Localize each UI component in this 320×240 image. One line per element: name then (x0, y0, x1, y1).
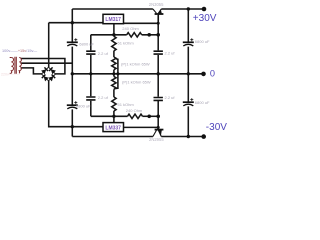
core (15, 57, 16, 74)
svg-text:6800 uF: 6800 uF (195, 39, 210, 44)
svg-text:2.2 uf: 2.2 uf (98, 95, 109, 100)
wire LM337 ADJ stub (113, 116, 115, 123)
terminal 0 (201, 72, 206, 77)
svg-text:+30V: +30V (193, 13, 217, 24)
wire transformer secondary center tap (21, 62, 73, 64)
junction 0V / wiper top (116, 72, 119, 75)
terminal +30V (202, 7, 207, 12)
junction ADJ pin / 51k top (112, 33, 115, 36)
wire bridge minus vertical (49, 81, 103, 127)
svg-text:2.2 uf: 2.2 uf (165, 51, 176, 56)
wire transformer secondary lead1 (21, 59, 65, 74)
wire 51k-pot column connectors bottom (113, 74, 115, 117)
svg-text:2N3055: 2N3055 (149, 2, 164, 7)
svg-text:2.2 uf: 2.2 uf (165, 95, 176, 100)
wire unregulated + input to LM317 (49, 22, 103, 24)
svg-text:240 Ohm: 240 Ohm (122, 26, 139, 31)
svg-text:100v——+15v/15v—: 100v——+15v/15v— (2, 49, 37, 53)
junction 0V / pot top (112, 72, 115, 75)
svg-text:(P)1 kOhm 65W: (P)1 kOhm 65W (122, 80, 151, 85)
svg-text:LM317: LM317 (105, 17, 121, 23)
diode D3 SW (44, 76, 49, 81)
wire ADJ line bottom + cap branch (91, 74, 128, 117)
junction -30V rail / C8 (187, 135, 190, 138)
bridge rectifier diamond (42, 67, 56, 81)
wire top rail left segment (72, 8, 153, 10)
svg-text:6800 uF: 6800 uF (195, 100, 210, 105)
junction 0V / output caps (157, 72, 160, 75)
primary winding (11, 58, 13, 74)
junction OUT line / base column top (156, 33, 160, 37)
svg-text:51 kOhm: 51 kOhm (118, 41, 135, 46)
svg-text:(P)1 kOhm 65W: (P)1 kOhm 65W (121, 61, 150, 66)
wire bridge plus vertical (48, 23, 50, 68)
resistor 51 kOhm bottom (112, 97, 116, 111)
capacitor C4 6800uF top right (183, 38, 194, 46)
junction +30V rail / C4 (187, 7, 190, 10)
junction unreg+ / top rail feed (71, 21, 74, 24)
junction LM317 OUT / base (157, 22, 160, 25)
wire ADJ line bottom right part (143, 115, 159, 117)
wire 51k-pot column connectors top (113, 51, 115, 74)
primary lead stubs (10, 58, 12, 74)
wire pot wiper top (117, 59, 119, 74)
wire pot wiper bottom (117, 74, 119, 89)
capacitor C1 6800uF top left (67, 38, 78, 46)
wire output cap column top (157, 15, 159, 74)
svg-text:6800 uF: 6800 uF (76, 104, 91, 109)
regulator U2 LM337 (103, 123, 124, 132)
wire right column vertical (187, 9, 189, 137)
pot wiper arrow bottom (115, 87, 118, 89)
pot wiper arrow top (115, 58, 118, 60)
wire transformer secondary lead3 (21, 68, 42, 74)
junction on OUT line bottom (147, 115, 151, 119)
transistor Q2 bottom (153, 127, 164, 136)
wire left column vertical (top) (71, 9, 73, 74)
resistor 51 kOhm top (112, 36, 116, 51)
terminal -30V (201, 134, 206, 139)
junction OUT line / base column bottom (156, 115, 160, 119)
capacitor C6 2.2uF ADJ bottom (86, 97, 95, 100)
wire 51k top connect (113, 35, 115, 37)
capacitor C3 2.2uF output top (154, 51, 163, 54)
diode D4 SE (48, 76, 53, 81)
junction 0V / center tap / C1 (71, 72, 74, 75)
capacitor C5 6800uF bottom left (67, 101, 78, 109)
junction on OUT line top (147, 33, 151, 37)
capacitor C7 2.2uF output bottom (154, 98, 163, 101)
diode D1 NW (41, 69, 46, 74)
regulator U1 LM317 (103, 14, 124, 23)
junction 0V / C2 (89, 72, 92, 75)
capacitor C2 2.2uF ADJ top (86, 51, 95, 54)
svg-text:240 Ohm: 240 Ohm (126, 108, 143, 113)
svg-text:LM337: LM337 (105, 125, 121, 131)
capacitor C8 6800uF bottom right (183, 98, 194, 106)
junction unreg- / bottom rail feed (71, 125, 74, 128)
wire output cap column bottom (157, 74, 159, 130)
wire LM317 output (124, 22, 159, 24)
wire bottom rail left segment (72, 136, 153, 138)
potentiometer 1 kOhm top (112, 57, 116, 70)
svg-text:-30V: -30V (206, 122, 227, 133)
junction 0V / right column (187, 72, 190, 75)
wire bottom rail right segment (161, 136, 203, 138)
diode D2 NE (51, 69, 56, 74)
secondary winding 15V+15V (19, 58, 21, 74)
svg-text:0: 0 (210, 69, 215, 79)
svg-text:2N2955: 2N2955 (149, 137, 164, 142)
wire 0V rail (72, 73, 203, 75)
value labels gray (76, 2, 210, 142)
resistor R 240 Ohm bottom (128, 114, 143, 118)
wire ADJ line right part (142, 34, 159, 36)
svg-text:6800 uF: 6800 uF (79, 41, 94, 46)
transistor Q1 2N3055 top (153, 9, 164, 23)
svg-text:2.2 uf: 2.2 uf (98, 51, 109, 56)
junction ADJ pin / 51k bottom (112, 115, 115, 118)
svg-text:220v———: 220v——— (1, 73, 20, 77)
wire ADJ line left part + cap branch (91, 35, 127, 74)
potentiometer 1 kOhm bottom (112, 77, 116, 90)
transformer T1 (10, 57, 22, 74)
wire LM317 ADJ stub (113, 24, 115, 35)
svg-text:51 kOhm: 51 kOhm (118, 102, 135, 107)
wire LM337 output (124, 126, 159, 128)
junction LM337 OUT / base (157, 126, 160, 129)
wire top rail right segment (161, 8, 204, 10)
wire left column vertical (bottom) (71, 74, 73, 137)
resistor R 240 Ohm top (127, 33, 142, 37)
